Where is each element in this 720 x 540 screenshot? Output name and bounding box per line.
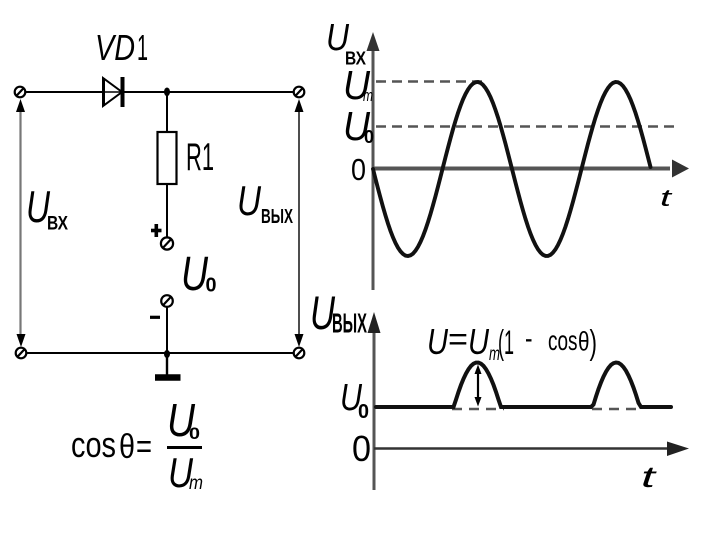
svg-text:U: U: [427, 321, 449, 362]
graph1 sine curve Uvx: [373, 82, 651, 256]
svg-text:-: -: [525, 322, 533, 355]
svg-text:θ: θ: [119, 428, 135, 466]
svg-text:0: 0: [352, 428, 371, 469]
svg-text:VD: VD: [95, 27, 135, 68]
wire bottom: [27, 352, 294, 354]
wire resistor to plus terminal: [166, 184, 168, 237]
svg-text:=: =: [448, 321, 468, 357]
graph1 y-axis: [367, 32, 380, 290]
svg-text:=: =: [136, 428, 152, 466]
graph2 dashed line Uo level: [452, 408, 504, 410]
svg-text:ВЫХ: ВЫХ: [261, 206, 293, 228]
svg-text:R1: R1: [186, 136, 214, 179]
label Uvx: [26, 183, 68, 235]
terminal input top-left: [15, 87, 26, 98]
graph1 x-axis: [373, 160, 689, 178]
svg-text:cos: cos: [71, 424, 116, 465]
dimension arrow Uvx (left): [16, 99, 26, 347]
terminal bottom-right: [294, 348, 305, 359]
terminal U0 plus: [161, 237, 173, 249]
graph2 output curve Uvyx: [376, 363, 671, 408]
svg-text:U: U: [468, 321, 490, 362]
svg-text:U: U: [181, 248, 208, 301]
label U0: [181, 248, 217, 301]
label Uvyx: [237, 177, 293, 228]
graph1 label Uvx: [326, 17, 367, 69]
dimension arrow Uvyx (right): [295, 99, 304, 347]
svg-text:U: U: [237, 177, 262, 224]
graph2 label Uo: [340, 377, 369, 423]
svg-text:1: 1: [137, 27, 148, 68]
svg-text:ВЫХ: ВЫХ: [332, 308, 367, 339]
graph2 formula U=Um(1-cos theta): [427, 321, 597, 365]
graph2 label Uvyx: [310, 286, 367, 339]
graph2 amplitude arrow: [475, 365, 482, 407]
graph1 label Uo: [343, 103, 374, 149]
svg-text:0: 0: [206, 275, 217, 297]
wire top (input to output): [26, 91, 294, 93]
terminal output top-right: [294, 87, 305, 98]
svg-text:0: 0: [351, 152, 366, 187]
wire minus terminal to bottom: [166, 307, 168, 355]
ground: [155, 354, 181, 378]
graph1 label Um: [343, 62, 373, 108]
svg-text:0: 0: [358, 401, 369, 423]
graph1 dashed line Um: [376, 80, 487, 83]
svg-text:(1: (1: [498, 324, 514, 362]
wire junction to resistor: [166, 92, 168, 133]
graph1 dashed line Uo: [376, 125, 674, 128]
resistor R1: [158, 132, 177, 184]
diode VD1: [103, 77, 123, 107]
terminal bottom-left: [16, 348, 27, 359]
graph2 x-axis: [374, 442, 689, 457]
terminal U0 minus: [161, 295, 173, 307]
node junction bottom: [164, 350, 170, 358]
svg-text:m: m: [189, 473, 203, 494]
formula cos theta = U0/Um: [71, 394, 203, 496]
label plus: [151, 224, 162, 237]
label VD1: [95, 27, 148, 68]
node junction top: [164, 88, 170, 97]
graph2 y-axis: [368, 312, 381, 490]
svg-text:): ): [590, 324, 598, 362]
svg-text:ВХ: ВХ: [47, 213, 68, 235]
svg-text:cos: cos: [548, 325, 578, 356]
svg-text:0: 0: [189, 424, 200, 443]
svg-text:θ: θ: [578, 327, 590, 357]
svg-text:0: 0: [364, 127, 374, 147]
label minus: [150, 316, 160, 319]
